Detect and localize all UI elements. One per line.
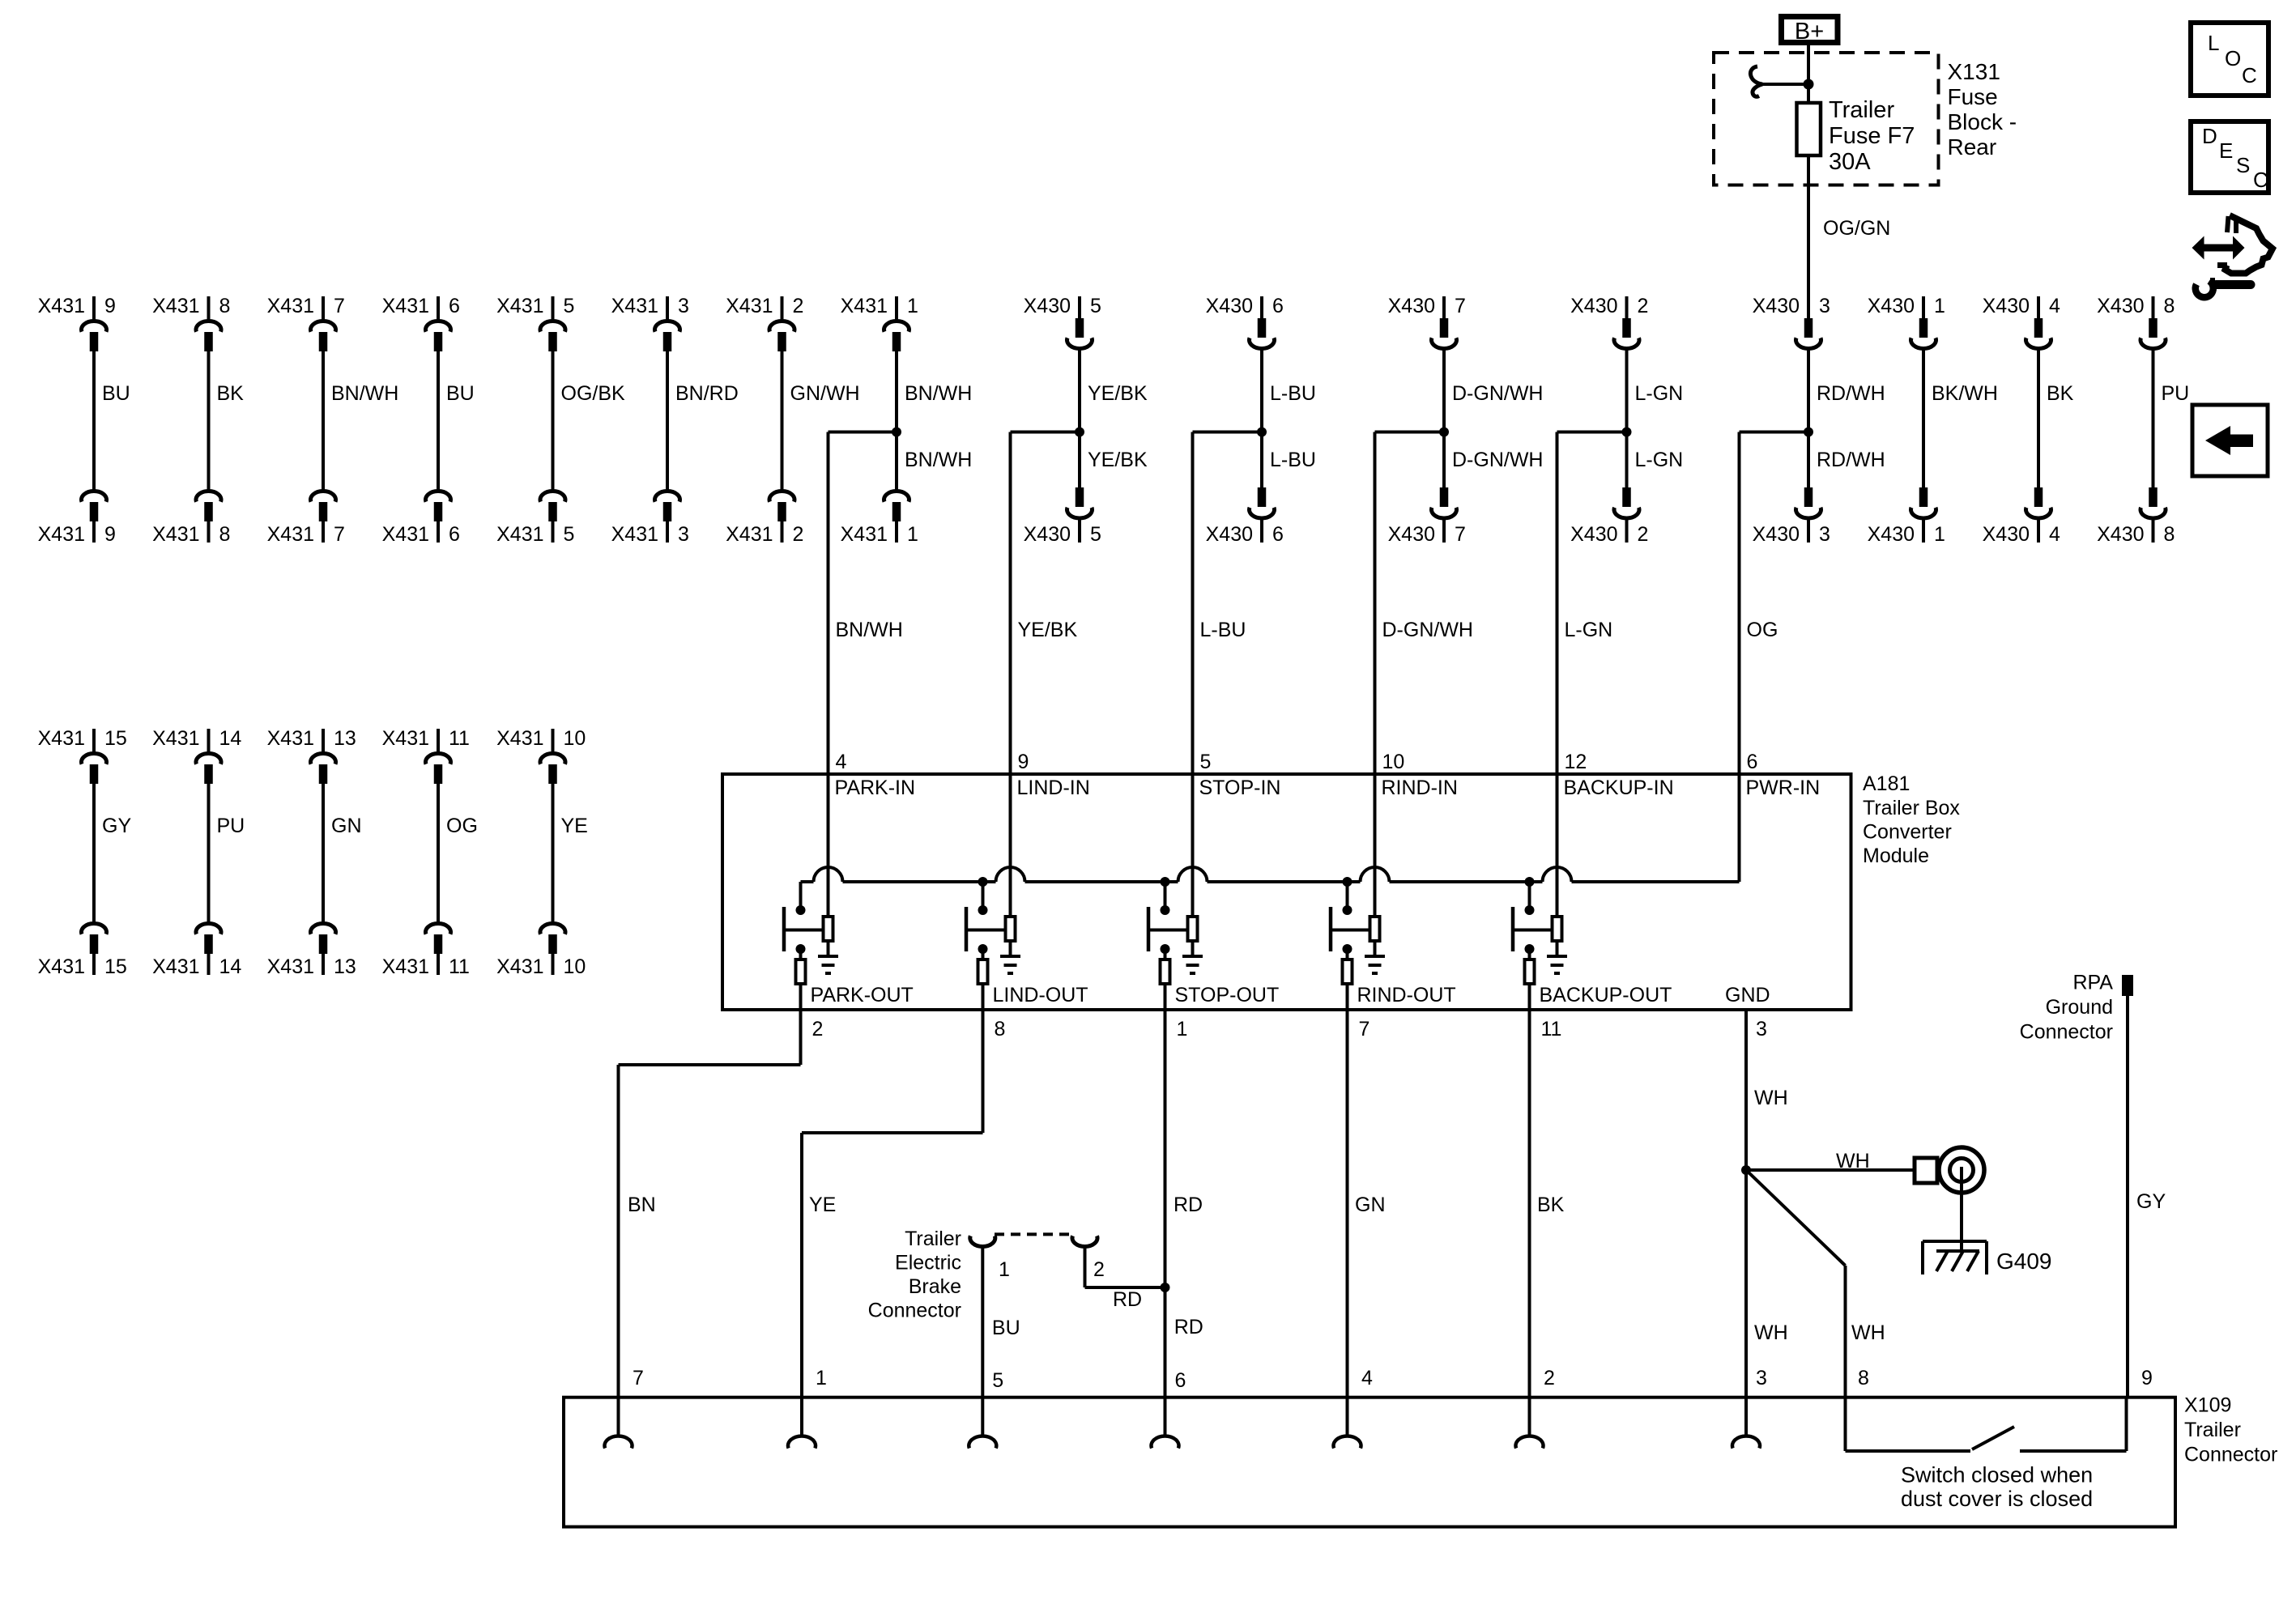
svg-text:BK: BK [1537,1194,1565,1216]
connector X431 pin 5 (lower) [496,491,574,546]
X109 contact pin 1 [788,1436,816,1448]
svg-text:X431: X431 [267,523,314,546]
svg-text:5: 5 [1090,523,1101,546]
svg-text:8: 8 [1858,1367,1869,1389]
ring terminal eyelet [1915,1147,1984,1193]
svg-text:OG/BK: OG/BK [561,382,626,405]
svg-text:RD/WH: RD/WH [1817,449,1885,471]
svg-text:RPA: RPA [2072,972,2113,994]
wire OG/GN fuse to X430 pin 3 [1808,155,1890,319]
svg-text:Connector: Connector [868,1300,961,1322]
svg-text:6: 6 [449,523,460,546]
svg-text:GN/WH: GN/WH [790,382,860,405]
svg-text:BN: BN [628,1194,656,1216]
svg-text:GN: GN [1355,1194,1386,1216]
svg-text:BN/WH: BN/WH [331,382,398,405]
svg-text:X430: X430 [1024,295,1071,317]
svg-text:3: 3 [678,295,689,317]
connector X431 pin 7 (upper) [267,295,345,351]
svg-text:A181: A181 [1863,772,1910,795]
svg-text:X431: X431 [267,727,314,750]
svg-text:STOP-IN: STOP-IN [1199,777,1281,799]
svg-text:D-GN/WH: D-GN/WH [1452,382,1543,405]
connector X109 outline [564,1398,2175,1527]
svg-text:5: 5 [992,1369,1003,1392]
connector X431 pin 10 (lower) [496,924,586,978]
transistor Q4 RIND driver with resistors and ground [1331,877,1456,1040]
svg-text:LIND-OUT: LIND-OUT [993,984,1088,1006]
X109 contact pin 7 [605,1436,633,1448]
connector X431 pin 14 (lower) [152,924,241,978]
svg-text:BU: BU [446,382,475,405]
svg-text:7: 7 [334,295,345,317]
svg-text:PWR-IN: PWR-IN [1746,777,1821,799]
connector X431 pin 3 (upper) [611,295,689,351]
wire OG/BK X431:5 [553,351,626,490]
svg-text:X430: X430 [1868,523,1915,546]
svg-text:7: 7 [1455,295,1466,317]
connector X430 pin 2 (upper) [1570,295,1648,348]
svg-text:BN/RD: BN/RD [675,382,739,405]
svg-text:RIND-IN: RIND-IN [1382,777,1458,799]
wire WH splice to ring terminal [1746,1150,1915,1172]
svg-text:13: 13 [334,955,356,978]
svg-text:D: D [2202,124,2217,148]
X109 contact pin 6 [1152,1436,1179,1448]
svg-text:X430: X430 [2097,523,2144,546]
svg-text:Converter: Converter [1863,821,1952,844]
svg-text:11: 11 [1541,1018,1562,1040]
svg-text:X431: X431 [382,955,429,978]
svg-text:BU: BU [992,1317,1020,1339]
connector X431 pin 13 (upper) [267,727,356,784]
svg-text:L-BU: L-BU [1270,449,1316,471]
wire BK BACKUP-OUT to X109:2 [1530,1010,1565,1436]
svg-text:BN/WH: BN/WH [905,382,972,405]
svg-text:X430: X430 [1983,523,2030,546]
svg-text:D-GN/WH: D-GN/WH [1382,619,1473,641]
svg-text:X431: X431 [152,727,199,750]
wire switch to X109 pin 9 side [2020,1398,2127,1451]
svg-text:D-GN/WH: D-GN/WH [1452,449,1543,471]
svg-text:7: 7 [1455,523,1466,546]
connector X430 pin 3 (lower) [1753,487,1830,546]
svg-text:X430: X430 [1388,295,1435,317]
svg-text:X431: X431 [38,727,85,750]
svg-text:YE: YE [809,1194,836,1216]
svg-text:G409: G409 [1996,1249,2052,1274]
wire X109 pin 8 to dust-cover switch [1846,1398,1971,1451]
label X131 Fuse Block - Rear [1948,59,2017,160]
svg-text:7: 7 [1359,1018,1370,1040]
svg-text:Rear: Rear [1948,134,1997,160]
X109 contact pin 2 [1516,1436,1544,1448]
svg-text:30A: 30A [1829,149,1871,175]
svg-text:YE/BK: YE/BK [1018,619,1078,641]
trailer brake connector contact 1 [970,1236,1010,1281]
svg-text:X431: X431 [496,727,543,750]
svg-text:X431: X431 [382,295,429,317]
svg-text:9: 9 [104,523,116,546]
svg-text:RD: RD [1113,1288,1142,1311]
junction node WH splice [1741,1165,1751,1175]
wire BK X430:4 [2038,348,2074,487]
svg-text:BK/WH: BK/WH [1932,382,1998,405]
svg-text:8: 8 [2164,295,2175,317]
svg-text:E: E [2219,138,2233,163]
svg-text:X430: X430 [1570,523,1617,546]
svg-text:X431: X431 [152,295,199,317]
connector X430 pin 5 (upper) [1024,295,1101,348]
wire GN/WH X431:2 [782,351,860,490]
connector X431 pin 11 (lower) [382,924,470,978]
svg-text:X431: X431 [38,523,85,546]
svg-text:X431: X431 [496,955,543,978]
svg-text:3: 3 [678,523,689,546]
svg-text:GN: GN [331,815,362,837]
svg-text:2: 2 [793,295,804,317]
svg-text:10: 10 [564,727,586,750]
svg-text:LIND-IN: LIND-IN [1017,777,1090,799]
svg-text:4: 4 [2049,523,2060,546]
svg-text:YE: YE [561,815,588,837]
svg-text:RD/WH: RD/WH [1817,382,1885,405]
svg-text:BK: BK [217,382,245,405]
svg-text:4: 4 [836,751,847,773]
svg-text:15: 15 [104,727,127,750]
connector X430 pin 7 (lower) [1388,487,1466,546]
svg-text:13: 13 [334,727,356,750]
svg-text:OG: OG [1747,619,1778,641]
svg-text:3: 3 [1819,523,1830,546]
svg-text:1: 1 [907,523,918,546]
svg-text:Fuse: Fuse [1948,84,1998,109]
wire D-GN/WH X430:7 [1444,348,1543,487]
connector X431 pin 9 (upper) [38,295,116,351]
svg-text:GY: GY [2136,1190,2166,1213]
svg-text:X430: X430 [1388,523,1435,546]
connector X431 pin 6 (lower) [382,491,460,546]
X109 contact pin 5 [969,1436,996,1448]
svg-text:8: 8 [219,295,231,317]
wire RD STOP-OUT to X109:6 [1165,1010,1203,1436]
svg-text:YE/BK: YE/BK [1088,382,1148,405]
svg-text:X430: X430 [1206,523,1253,546]
transistor Q2 LIND driver with resistors and ground [966,877,1088,1040]
module A181 outline [722,774,1851,1010]
connector X431 pin 9 (lower) [38,491,116,546]
wire branch L-GN to module [1557,432,1684,777]
connector X430 pin 3 (upper) [1753,295,1830,348]
svg-text:OG/GN: OG/GN [1823,217,1890,240]
svg-text:X431: X431 [38,295,85,317]
connector X430 pin 1 (lower) [1868,487,1945,546]
connector X431 pin 1 (lower) [841,491,918,546]
svg-text:2: 2 [793,523,804,546]
svg-text:BN/WH: BN/WH [836,619,903,641]
connector X431 pin 7 (lower) [267,491,345,546]
svg-text:Switch closed when: Switch closed when [1901,1463,2093,1487]
pin 6 PWR-IN [1740,751,1821,882]
svg-text:X430: X430 [1206,295,1253,317]
svg-text:WH: WH [1851,1321,1885,1344]
svg-text:X131: X131 [1948,59,2000,84]
wire GN X431:13 [323,784,362,922]
svg-text:Trailer: Trailer [1829,97,1894,123]
svg-text:PU: PU [217,815,245,837]
svg-text:X430: X430 [1753,295,1800,317]
svg-text:9: 9 [2141,1367,2153,1389]
connector X431 pin 15 (upper) [38,727,127,784]
svg-text:X431: X431 [496,295,543,317]
svg-text:9: 9 [104,295,116,317]
svg-text:7: 7 [334,523,345,546]
connector X431 pin 15 (lower) [38,924,127,978]
svg-text:B+: B+ [1795,19,1824,45]
pin 4 PARK-IN [829,751,916,917]
pin 3 GND [1725,984,1770,1040]
connector X430 pin 8 (upper) [2097,295,2175,348]
wire branch OG to module [1740,432,1885,777]
svg-text:7: 7 [633,1367,644,1389]
svg-text:RIND-OUT: RIND-OUT [1357,984,1456,1006]
svg-text:14: 14 [219,955,242,978]
svg-text:X430: X430 [1570,295,1617,317]
wire ring terminal to ground [1960,1167,1963,1251]
svg-text:11: 11 [449,727,470,750]
junction node on D-GN/WH wire [1439,428,1449,437]
label switch note [1901,1463,2093,1512]
connector X431 pin 2 (upper) [726,295,803,351]
svg-text:L-GN: L-GN [1635,449,1684,471]
svg-text:1: 1 [907,295,918,317]
svg-text:X431: X431 [382,523,429,546]
svg-text:1: 1 [999,1258,1010,1281]
svg-text:X431: X431 [726,523,773,546]
connector X430 pin 4 (lower) [1983,487,2060,546]
svg-text:15: 15 [104,955,127,978]
svg-text:2: 2 [1638,523,1649,546]
svg-text:X109: X109 [2184,1394,2231,1417]
wire PU X430:8 [2153,348,2190,487]
connector X430 pin 6 (lower) [1206,487,1284,546]
power feed B+ terminal [1782,17,1838,45]
fuse clip hook symbol [1750,66,1808,96]
svg-text:6: 6 [1272,523,1284,546]
svg-text:X430: X430 [1753,523,1800,546]
wire BN PARK-OUT to X109:7 [619,1010,801,1436]
connector X430 pin 7 (upper) [1388,295,1466,348]
svg-text:Connector: Connector [2020,1020,2113,1043]
X109 contact pin 4 [1334,1436,1361,1448]
svg-text:BACKUP-OUT: BACKUP-OUT [1540,984,1672,1006]
connector X431 pin 3 (lower) [611,491,689,546]
svg-text:Brake: Brake [909,1275,961,1298]
svg-text:YE/BK: YE/BK [1088,449,1148,471]
junction node on RD/WH wire [1804,428,1813,437]
svg-text:Ground: Ground [2046,996,2113,1019]
transistor Q5 BACKUP driver with resistors and ground [1513,877,1672,1040]
svg-text:X431: X431 [841,295,888,317]
connector X431 pin 13 (lower) [267,924,356,978]
svg-text:BK: BK [2047,382,2074,405]
wire B+ to fuse F7 [1807,45,1810,103]
junction node on YE/BK wire [1075,428,1084,437]
svg-text:STOP-OUT: STOP-OUT [1175,984,1280,1006]
connector X430 pin 1 (upper) [1868,295,1945,348]
junction node brake RD tap [1161,1283,1170,1292]
junction node on L-GN wire [1622,428,1632,437]
connector X430 pin 8 (lower) [2097,487,2175,546]
svg-text:X431: X431 [152,955,199,978]
connector RPA ground [2020,972,2133,1044]
svg-text:3: 3 [1756,1367,1767,1389]
svg-text:2: 2 [1638,295,1649,317]
svg-text:3: 3 [1819,295,1830,317]
svg-text:RD: RD [1174,1316,1203,1338]
transistor Q1 PARK driver with resistors and ground [784,882,914,1040]
wire YE LIND-OUT to X109:1 [802,1010,983,1436]
wire BU X431:9 [94,351,130,490]
svg-text:BU: BU [102,382,130,405]
connector X430 pin 6 (upper) [1206,295,1284,348]
svg-text:6: 6 [1272,295,1284,317]
svg-text:X431: X431 [382,727,429,750]
icon box DESC [2191,121,2268,193]
svg-text:X431: X431 [267,955,314,978]
svg-text:Electric: Electric [895,1252,961,1274]
wire BN/RD X431:3 [667,351,739,490]
svg-text:5: 5 [564,295,575,317]
icon box back-arrow [2192,405,2268,476]
svg-text:X431: X431 [496,523,543,546]
label Trailer Electric Brake Connector [868,1228,961,1322]
wire PU X431:14 [209,784,245,922]
connector X431 pin 14 (upper) [152,727,241,784]
svg-text:Connector: Connector [2184,1443,2277,1466]
svg-text:X431: X431 [611,523,658,546]
wire BK X431:8 [209,351,245,490]
svg-text:WH: WH [1754,1321,1788,1344]
svg-text:X430: X430 [1983,295,2030,317]
connector X430 pin 5 (lower) [1024,487,1101,546]
wire GY RPA to X109:9 [2128,996,2166,1398]
label A181 Trailer Box Converter Module [1863,772,1960,867]
svg-text:L-GN: L-GN [1635,382,1684,405]
fuse F7 30A [1797,97,1915,175]
svg-text:Trailer: Trailer [2184,1419,2241,1441]
svg-text:8: 8 [995,1018,1006,1040]
connector X431 pin 5 (upper) [496,295,574,351]
connector X430 pin 4 (upper) [1983,295,2060,348]
wire branch BN/WH to module [829,432,973,777]
svg-text:L-GN: L-GN [1565,619,1613,641]
connector X431 pin 8 (lower) [152,491,230,546]
wire YE X431:10 [553,784,588,922]
wire BU X431:6 [438,351,475,490]
svg-text:PU: PU [2162,382,2190,405]
wire branch L-BU to module [1193,432,1316,777]
svg-text:10: 10 [1382,751,1405,773]
svg-text:BACKUP-IN: BACKUP-IN [1564,777,1674,799]
svg-text:X430: X430 [1024,523,1071,546]
fuse block X131 dashed outline [1714,53,1939,185]
icon part-and-wrench [2192,215,2273,297]
icon box LOC [2191,23,2268,96]
svg-text:X431: X431 [38,955,85,978]
wire GN RIND-OUT to X109:4 [1348,1010,1386,1436]
svg-text:14: 14 [219,727,242,750]
pin 10 RIND-IN [1375,751,1458,917]
wire L-GN X430:2 [1627,348,1684,487]
connector X431 pin 2 (lower) [726,491,803,546]
svg-text:9: 9 [1018,751,1029,773]
svg-text:2: 2 [812,1018,824,1040]
svg-text:WH: WH [1836,1150,1870,1172]
svg-text:S: S [2236,153,2250,177]
svg-text:2: 2 [1093,1258,1105,1281]
pin 12 BACKUP-IN [1557,751,1674,917]
wire BU brake connector 1 to X109:5 [982,1247,1020,1436]
connector X430 pin 2 (lower) [1570,487,1648,546]
wire BN/WH X431:7 [323,351,398,490]
pin 9 LIND-IN [1011,751,1090,917]
wire WH GND to X109:3 [1746,1010,1788,1436]
svg-text:X431: X431 [611,295,658,317]
svg-text:Trailer: Trailer [905,1228,961,1250]
svg-text:C: C [2242,63,2257,87]
svg-text:4: 4 [1361,1367,1373,1389]
wire L-BU X430:6 [1262,348,1316,487]
svg-text:X431: X431 [726,295,773,317]
svg-text:2: 2 [1544,1367,1555,1389]
internal PWR bus wire [801,867,1740,882]
wire BK/WH X430:1 [1923,348,1998,487]
junction node on L-BU wire [1257,428,1267,437]
dashed link between brake contacts [995,1232,1072,1236]
wire branch YE/BK to module [1011,432,1148,777]
wire GY X431:15 [94,784,131,922]
svg-text:OG: OG [446,815,478,837]
wire branch D-GN/WH to module [1375,432,1544,777]
svg-text:RD: RD [1174,1194,1203,1216]
svg-text:6: 6 [1747,751,1758,773]
svg-text:GND: GND [1725,984,1770,1006]
svg-text:dust cover is closed: dust cover is closed [1901,1487,2093,1511]
svg-text:X430: X430 [2097,295,2144,317]
svg-text:12: 12 [1565,751,1587,773]
connector X431 pin 1 (upper) [841,295,918,351]
svg-text:X431: X431 [267,295,314,317]
svg-text:PARK-OUT: PARK-OUT [811,984,914,1006]
svg-text:L-BU: L-BU [1270,382,1316,405]
svg-text:1: 1 [1177,1018,1188,1040]
wire RD/WH X430:3 [1808,348,1885,487]
connector X431 pin 10 (upper) [496,727,586,784]
wire RD brake connector 2 jog [1085,1247,1165,1312]
svg-text:L-BU: L-BU [1200,619,1246,641]
wire OG X431:11 [438,784,478,922]
dust cover switch blade [1972,1427,2014,1449]
connector X431 pin 8 (upper) [152,295,230,351]
wire BN/WH X431:1 [897,351,972,490]
wire WH splice to X109:8 [1746,1170,1885,1398]
svg-text:5: 5 [1090,295,1101,317]
svg-text:4: 4 [2049,295,2060,317]
svg-text:6: 6 [449,295,460,317]
svg-text:O: O [2225,46,2241,70]
svg-text:Trailer Box: Trailer Box [1863,797,1960,819]
